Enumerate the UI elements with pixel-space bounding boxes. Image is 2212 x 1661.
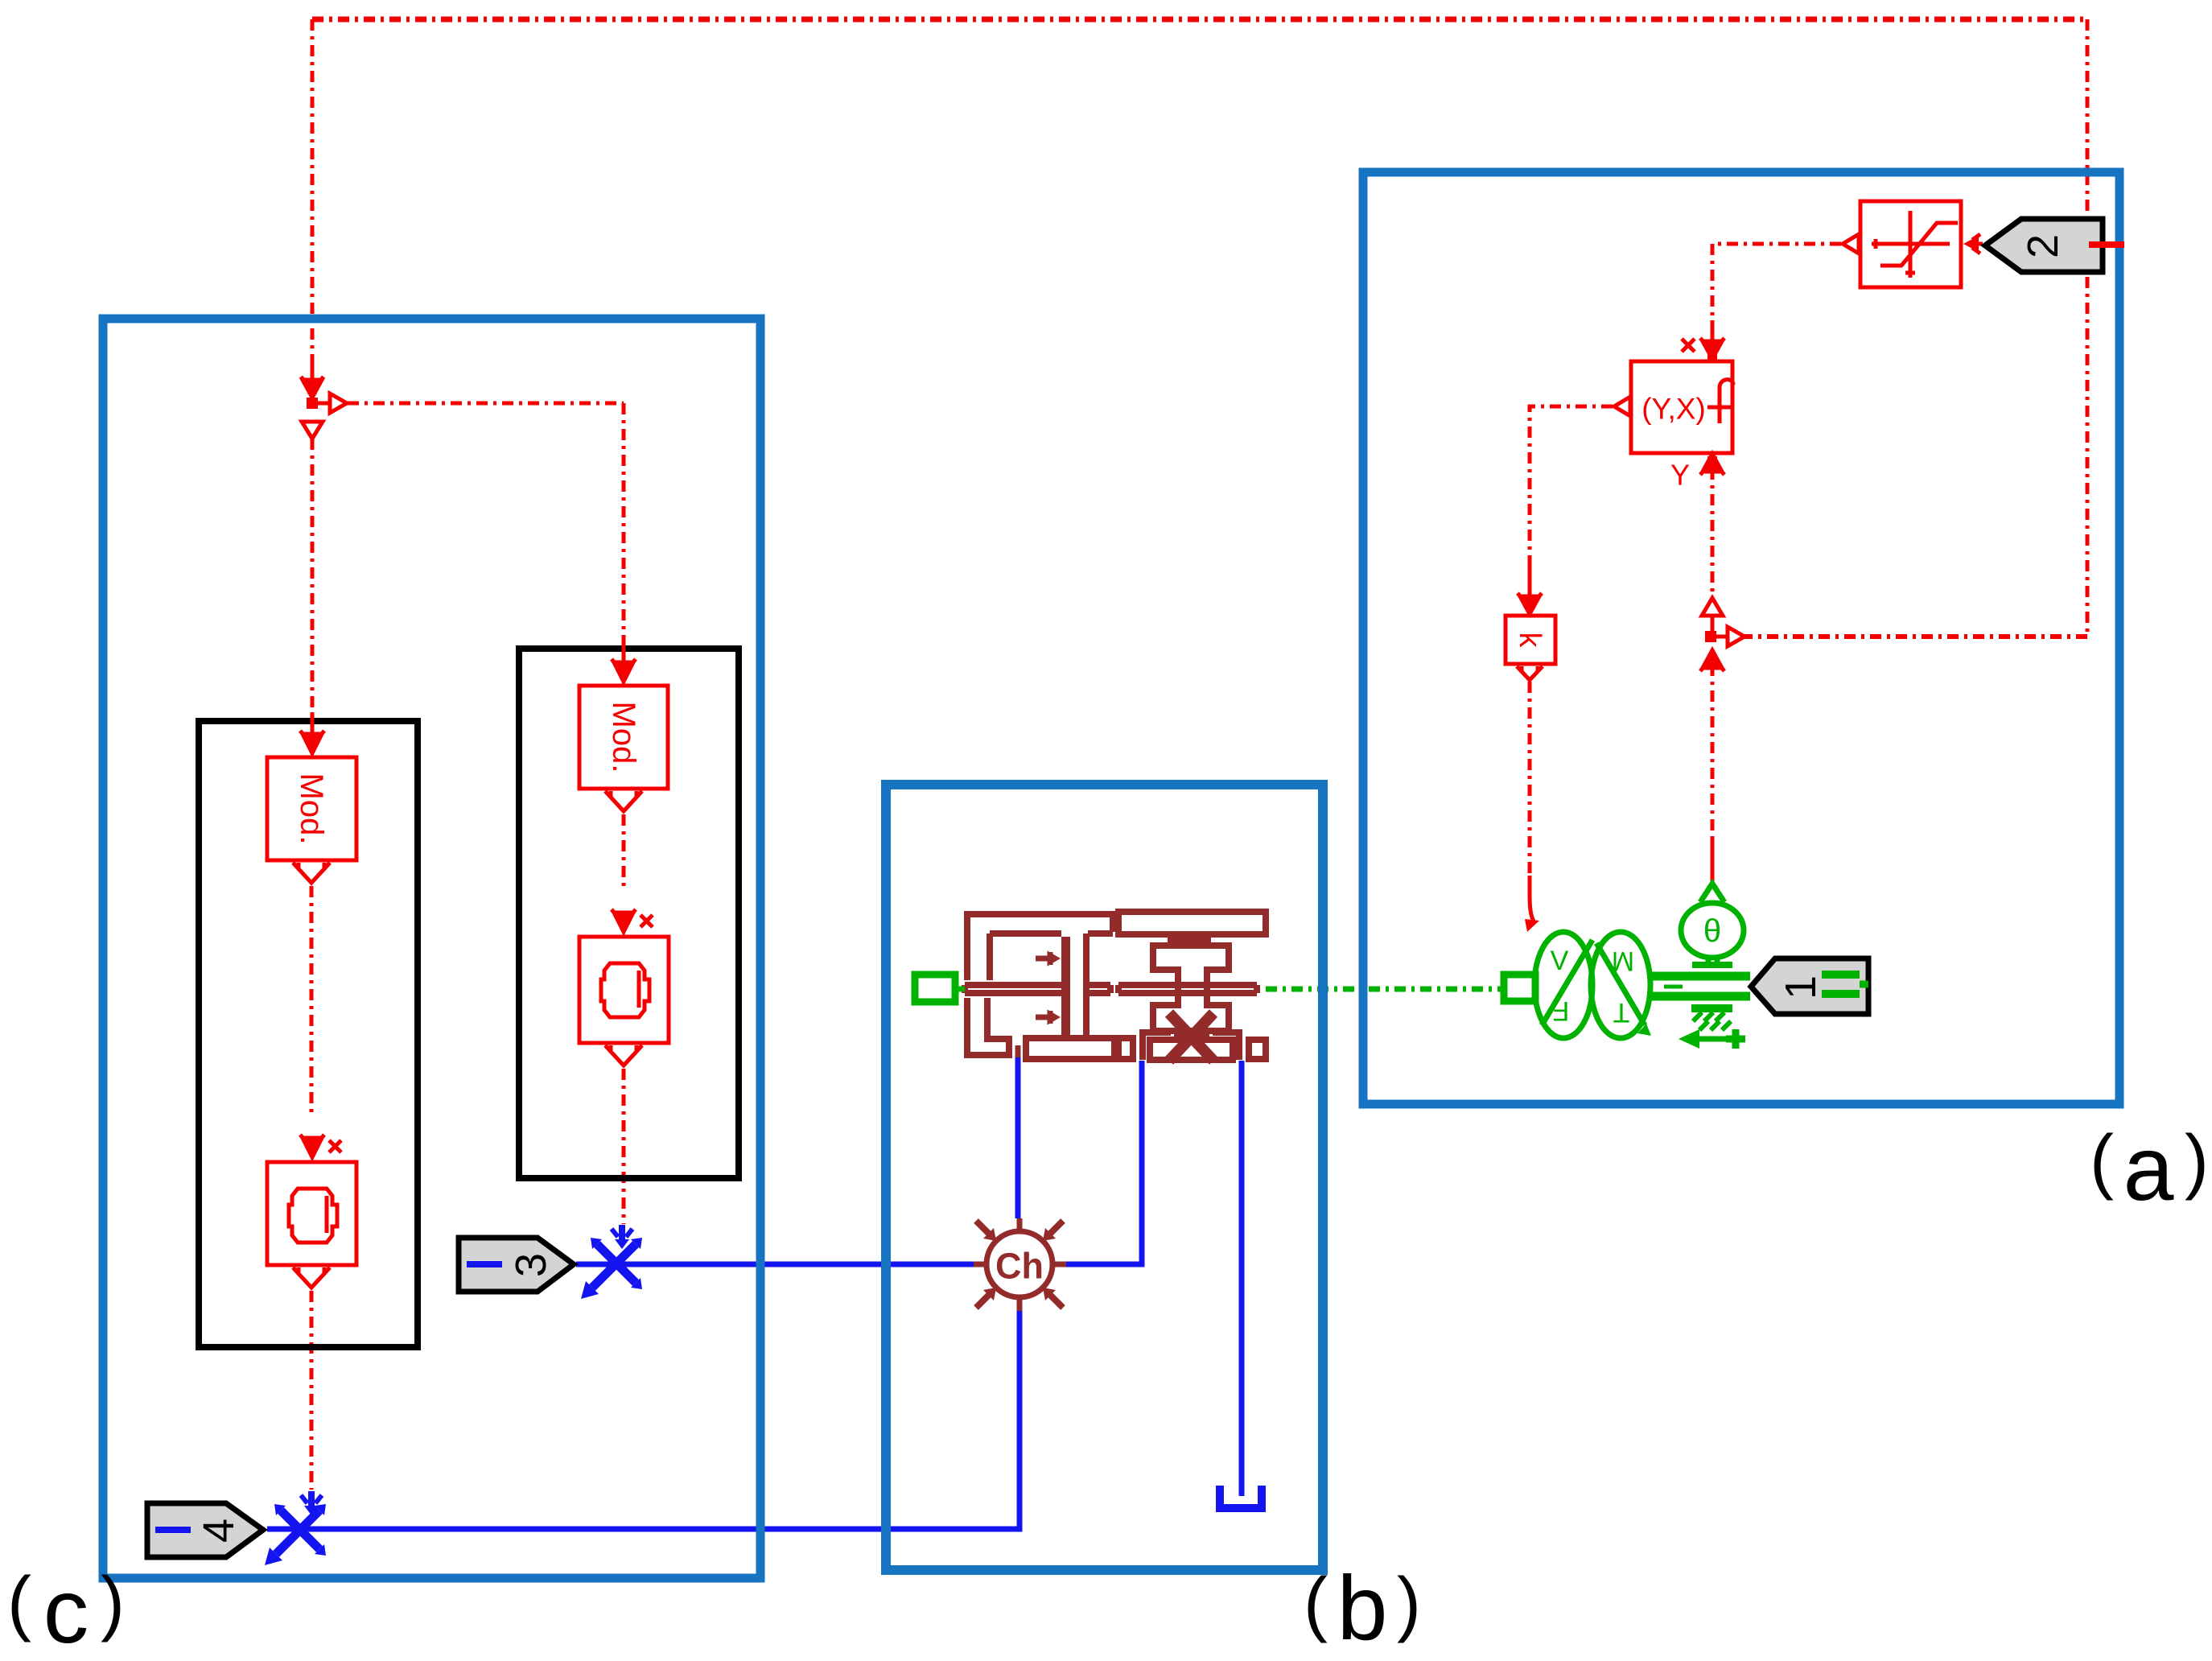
wire: left drop into box c [311,19,315,354]
second vertical [1083,934,1090,1038]
four inward arrows [976,1221,1063,1308]
inner black box right [519,649,739,1178]
upper-left outer wall [964,914,970,980]
svg-text:(: ( [7,1563,31,1643]
wire: right branch down to Mod2 [622,403,626,644]
wire: (Y,X) out to k [1614,397,1630,416]
flapper solid bar [1168,937,1211,946]
svg-text:M: M [1612,946,1634,976]
frame box (a) [1363,172,2119,1104]
bobbin I-beam [1153,946,1229,1031]
frame box (b) [886,785,1323,1570]
left port rect [1504,975,1535,1001]
svg-text:T: T [1613,997,1630,1028]
label (b) [1304,1557,1421,1659]
svg-text:Ch: Ch [995,1246,1044,1287]
wire: tag2 to saturation [1967,242,1983,246]
wire: green mechanical dash line valve->pump [1266,987,1504,992]
svg-text:V: V [1551,946,1569,976]
plus arrows [1036,952,1058,1024]
connector down to top plate [1110,914,1116,932]
coil barrel icon [289,1189,337,1243]
svg-text:c: c [43,1560,89,1661]
lower-left chamber [967,998,1009,1055]
rod right [1118,985,1257,993]
svg-text:Mod.: Mod. [294,773,329,845]
shaft double line [1650,976,1750,996]
wire: tag3 to Ch left [576,1262,974,1267]
label (a) [2090,1118,2209,1219]
svg-text:(: ( [2090,1121,2114,1201]
ground hatch under shaft [1691,1004,1732,1012]
wire: junction1 to right branch [348,402,624,406]
blue cross tag3 [581,1225,642,1299]
block (Y,X) function [1631,361,1733,453]
wire: Ch right to valve bracket port [1066,1061,1142,1264]
wire: Ch bottom to tag4 cross [267,1311,1019,1529]
displacement arrow [1693,1037,1728,1042]
block Mod1 [267,712,356,883]
svg-text:): ) [2185,1121,2209,1201]
wire: k down to pump control [1528,682,1532,876]
x label [329,1140,341,1152]
spool plunger solid [1061,937,1070,1038]
X cross [1169,1013,1213,1061]
wire: junction1 down to Mod1 [311,439,315,712]
rod mid [1088,985,1110,993]
svg-text:(Y,X): (Y,X) [1641,393,1706,426]
wire: Mod1 to solenoid1 [310,886,314,1117]
theta sensor [1681,903,1744,958]
svg-text:): ) [101,1563,125,1643]
junction node 1 [301,354,347,439]
wire: saturation to X input [1712,244,1841,320]
saturation out port [1843,234,1859,253]
junction node 2 [1705,631,1716,642]
green port at valve [915,975,965,1002]
block solenoid1 [267,1135,356,1288]
pump/motor unit [1534,932,1592,1038]
label (c) [7,1560,125,1661]
blue cross tag4 [265,1491,326,1565]
frame box (c) [103,319,760,1578]
inner top bar + inner wall [990,930,1113,937]
block Mod2 [579,644,668,811]
block solenoid2 [579,909,669,1065]
inner black box left [199,721,418,1347]
right small square [1249,1040,1266,1059]
svg-text:θ: θ [1703,913,1721,949]
wire: valve right port down to tank [1239,1061,1245,1496]
rod left [965,985,1061,993]
bottom port stub [1015,1045,1021,1057]
tank symbol [1220,1486,1262,1508]
block gain k [1506,616,1555,680]
svg-text:2: 2 [2019,234,2067,258]
svg-text:F: F [1553,995,1570,1026]
svg-text:k: k [1513,633,1547,649]
svg-text:1: 1 [1777,975,1825,999]
wire: feedback into junction2 [1738,634,2087,639]
top plate (outlined) [1118,912,1266,934]
svg-text:(: ( [1304,1564,1328,1644]
bottom plate [1026,1038,1114,1059]
block saturation [1860,201,1961,287]
svg-text:4: 4 [195,1519,243,1543]
wire: top feedback horizontal [312,17,2087,23]
tag 3 [459,1238,574,1292]
svg-text:): ) [1397,1564,1421,1644]
bottom bracket [1143,1032,1239,1060]
valve outer top bar [964,911,1116,917]
svg-text:a: a [2123,1118,2174,1219]
svg-text:3: 3 [507,1253,555,1277]
x label top of Y,X [1682,339,1695,352]
tag 4 [147,1503,263,1557]
wire: solenoid1 to tag4 cross [310,1291,314,1490]
wire: valve left port down to Ch top [1015,1057,1021,1218]
wire: solenoid2 to tag3 cross [622,1069,626,1224]
wire: feedback right vertical [2086,19,2090,637]
svg-text:Mod.: Mod. [606,702,641,773]
wire: Mod2 to solenoid2 [622,814,626,892]
wire: junction2 down to sensor [1711,665,1715,837]
wire: junction2 up to Y input [1707,456,1717,466]
svg-text:b: b [1337,1557,1388,1659]
svg-text:Y: Y [1670,459,1690,492]
